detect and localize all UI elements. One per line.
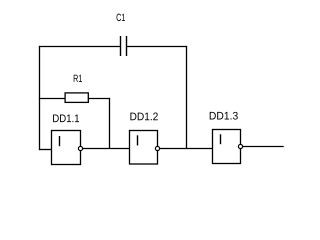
wire left vertical <box>39 46 41 150</box>
label C1 <box>117 14 126 21</box>
inverter DD1.1 <box>52 131 81 165</box>
wire DD1.1 output to DD1.2 input <box>83 148 130 150</box>
DD1.1 function symbol 1 <box>59 136 61 146</box>
wire resistor R1 right <box>88 98 110 100</box>
label R1 <box>74 75 82 82</box>
DD1.1 inversion bubble <box>78 146 82 150</box>
wire left vertical to resistor R1 <box>39 98 65 100</box>
wire DD1.1 input <box>39 149 52 151</box>
DD1.3 inversion bubble <box>238 144 242 148</box>
label DD1.3 <box>210 112 238 120</box>
wire top horizontal left of C1 <box>39 46 121 48</box>
wire right vertical <box>186 46 188 149</box>
inverter DD1.3 <box>213 130 241 164</box>
inverter DD1.2 <box>130 131 158 165</box>
DD1.2 function symbol 1 <box>137 135 139 145</box>
wire R1 vertical drop to DD1.1 output net <box>109 98 111 149</box>
capacitor C1 left plate <box>120 36 122 56</box>
label DD1.1 <box>53 115 79 123</box>
wire DD1.2 output to DD1.3 input <box>160 148 213 150</box>
DD1.3 function symbol 1 <box>220 134 222 144</box>
wire top horizontal right of C1 <box>127 46 188 48</box>
wire DD1.3 output <box>243 146 284 148</box>
resistor R1 <box>65 93 88 103</box>
capacitor C1 right plate <box>126 36 128 56</box>
DD1.2 inversion bubble <box>155 146 159 150</box>
label DD1.2 <box>130 113 157 121</box>
